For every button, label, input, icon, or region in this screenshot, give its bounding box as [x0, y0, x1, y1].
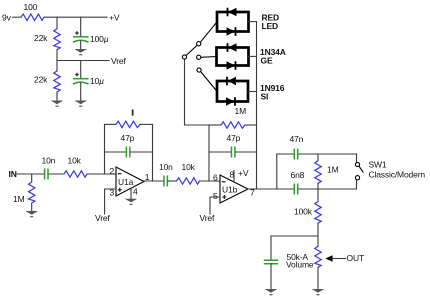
- wire 9v to R100: [13, 16, 22, 18]
- svg-text:LED: LED: [262, 21, 279, 31]
- switch lever wire: [186, 45, 197, 55]
- ground under 100µ: [74, 49, 87, 55]
- switch throw contact middle: [197, 55, 201, 59]
- svg-text:1M: 1M: [13, 194, 25, 204]
- svg-text:10k: 10k: [68, 156, 82, 166]
- wire diode bus right rail: [256, 22, 258, 189]
- svg-text:22k: 22k: [34, 33, 48, 43]
- switch rotary pole contact: [182, 55, 186, 59]
- wire to U1b pin 6: [200, 180, 221, 182]
- wire input row: [17, 173, 44, 175]
- wire pin4 to ground: [130, 188, 132, 198]
- switch throw contact top: [197, 42, 201, 46]
- capacitor C output filter: [270, 236, 272, 260]
- svg-text:47n: 47n: [290, 134, 304, 144]
- wire pin5 to Vref: [210, 197, 220, 214]
- svg-text:10n: 10n: [42, 156, 56, 166]
- wire pin3 to Vref: [105, 189, 116, 214]
- wire throw to RED LED box: [200, 22, 217, 42]
- svg-text:10k: 10k: [182, 162, 196, 172]
- svg-text:10µ: 10µ: [90, 76, 104, 86]
- svg-text:SW1: SW1: [369, 160, 387, 170]
- wire +V rail: [44, 16, 107, 18]
- ground under input 1M: [25, 211, 38, 217]
- svg-text:5: 5: [213, 191, 218, 201]
- wire U1a output: [144, 180, 163, 182]
- capacitor C 10µ electrolytic: [80, 61, 82, 79]
- diode pair D RED LED: [217, 12, 249, 32]
- svg-text:2: 2: [110, 166, 115, 176]
- wire rail to pin6: [208, 125, 210, 181]
- ground under 22k lower: [51, 101, 64, 107]
- svg-text:SI: SI: [261, 91, 269, 101]
- wire branch rail to 47n: [276, 154, 278, 189]
- svg-text:100µ: 100µ: [90, 34, 109, 44]
- capacitor C 100µ electrolytic: [80, 17, 82, 36]
- diode pair D 1N34A GE: [217, 48, 249, 66]
- svg-text:100k: 100k: [294, 207, 313, 217]
- ground under output cap: [265, 289, 278, 295]
- svg-text:+V: +V: [238, 168, 249, 178]
- wire throw to SI box: [201, 72, 217, 92]
- wire feedback right rail: [152, 124, 154, 181]
- wire to U1a pin 2: [87, 173, 116, 175]
- diode pair D 1N916 SI: [217, 81, 248, 102]
- svg-text:47p: 47p: [121, 133, 135, 143]
- svg-text:Volume: Volume: [286, 260, 314, 270]
- svg-text:10n: 10n: [159, 162, 173, 172]
- ground U1a pin4: [125, 199, 138, 205]
- svg-text:Vref: Vref: [200, 213, 215, 223]
- wire row to output cap: [271, 235, 318, 237]
- svg-text:OUT: OUT: [347, 253, 365, 263]
- svg-text:+V: +V: [109, 13, 120, 23]
- svg-text:IN: IN: [9, 169, 17, 179]
- svg-text:100: 100: [24, 2, 38, 12]
- svg-text:U1b: U1b: [222, 185, 238, 195]
- wire: [168, 180, 176, 182]
- svg-text:4: 4: [133, 187, 138, 197]
- svg-text:U1a: U1a: [118, 177, 134, 187]
- wire U1b output row: [248, 188, 294, 190]
- svg-text:1M: 1M: [327, 165, 339, 175]
- svg-text:22k: 22k: [34, 75, 48, 85]
- svg-text:6n8: 6n8: [291, 170, 305, 180]
- wire switch pole rail: [185, 59, 210, 125]
- svg-text:Vref: Vref: [111, 56, 126, 66]
- wire pin8 to +V: [233, 171, 235, 183]
- svg-text:6: 6: [213, 173, 218, 183]
- svg-text:1M: 1M: [235, 106, 247, 116]
- wire feedback left rail: [104, 124, 106, 174]
- svg-text:Vref: Vref: [95, 213, 110, 223]
- svg-text:GE: GE: [261, 56, 273, 66]
- ground under volume pot: [312, 289, 325, 295]
- wire Vref row: [57, 60, 109, 62]
- op-amp U1a: [116, 167, 144, 196]
- op-amp U1b: [220, 175, 248, 203]
- wire: [49, 173, 64, 175]
- svg-text:47p: 47p: [227, 133, 241, 143]
- resistor feedback R value 1: [132, 110, 134, 116]
- svg-text:Classic/Modern: Classic/Modern: [369, 170, 426, 180]
- ground under 10µ: [74, 101, 87, 107]
- switch SW1 Classic/Modern: [355, 162, 359, 166]
- switch throw contact bottom: [197, 68, 201, 72]
- wire throw to GE box: [201, 56, 217, 59]
- svg-text:9v: 9v: [2, 13, 12, 23]
- potentiometer wiper arrow to OUT: [325, 255, 332, 261]
- wire top row 47n: [277, 153, 294, 155]
